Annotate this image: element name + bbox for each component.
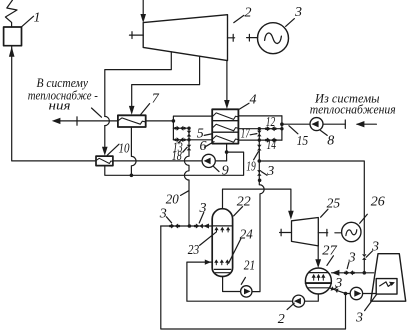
wire: suction to circ pump and to spray box xyxy=(346,293,377,295)
turbine 2 right shaft seg B xyxy=(247,37,258,39)
condenser 27 xyxy=(305,268,331,294)
wire: live steam line into turbine xyxy=(142,0,144,18)
valve 3 on feed line left xyxy=(171,224,178,229)
deaerator upper spray arrows xyxy=(214,227,230,232)
svg-text:4: 4 xyxy=(250,93,257,108)
wire: condensate rail with hop over deaerator steam line xyxy=(252,129,264,292)
arrow into turbine inlet xyxy=(140,14,146,23)
heater 6 zigzag bottom xyxy=(212,136,238,143)
label 26 leader xyxy=(360,214,368,223)
svg-text:3: 3 xyxy=(199,201,207,216)
node right rail / valve12 row xyxy=(280,127,283,130)
svg-text:3: 3 xyxy=(294,5,302,20)
pump 9 arrow xyxy=(204,158,211,165)
boundary tick on supply line xyxy=(76,117,78,125)
wire: ladder left rail down xyxy=(172,121,174,140)
node drain tee xyxy=(225,150,229,154)
wire: extraction 2 down from turbine xyxy=(132,56,200,107)
node tee at HX7 outlet xyxy=(172,119,176,123)
shaft tick B xyxy=(248,34,250,41)
heat exchanger HX10 xyxy=(96,156,113,166)
network supply arrow (left) xyxy=(58,120,118,122)
turbine 25 right shaft xyxy=(318,232,327,234)
valve 18 vertical on rail xyxy=(187,145,191,151)
wire: HX7 outlet to ladder tee xyxy=(146,120,174,122)
heater block 4 xyxy=(212,109,238,143)
turbine T2 xyxy=(143,15,227,61)
svg-text:18: 18 xyxy=(172,149,182,164)
wire: row 13 xyxy=(173,127,189,129)
wire: drain line 17 / valve 12 row xyxy=(238,128,282,130)
label 22 leader xyxy=(234,207,243,216)
condenser water level thin xyxy=(308,287,330,289)
pump 21 xyxy=(241,286,252,297)
wire: valve 14 row xyxy=(238,139,282,141)
heater 4 zigzag top xyxy=(212,113,238,120)
wire: HX10 drain down and drain header xyxy=(105,152,244,175)
label 13 leader xyxy=(178,140,182,143)
svg-text:1: 1 xyxy=(34,11,41,26)
wire: heater block drain to pump 9 xyxy=(226,144,228,161)
valve 3 on feed line right (check valve) xyxy=(196,224,203,229)
label 10 leader xyxy=(107,144,119,155)
wire: heater top outlet to right rail xyxy=(238,115,282,117)
label 20 leader xyxy=(181,191,189,196)
label 3 leader xyxy=(261,172,267,176)
valve on row 18 xyxy=(177,137,184,142)
flow arrow after valve xyxy=(203,224,209,229)
wire: condensate line condenser to deaerator xyxy=(187,262,318,301)
label 3 leader xyxy=(365,295,377,311)
arrow into condenser circ inlet xyxy=(332,270,340,276)
svg-text:8: 8 xyxy=(327,134,334,149)
turbine 25 right shaft tick xyxy=(326,229,328,236)
HX10 internal zigzag xyxy=(96,158,113,163)
node rail/row13 xyxy=(187,127,190,130)
valve 12 xyxy=(267,126,275,131)
HX7 internal zigzag xyxy=(118,118,146,124)
turbine PT25 xyxy=(292,218,319,246)
turbine 25 left shaft xyxy=(280,232,292,234)
svg-text:25: 25 xyxy=(327,197,341,212)
svg-text:ния: ния xyxy=(49,98,71,112)
pump 2 arrow xyxy=(294,298,301,304)
generator G26 sine xyxy=(346,230,357,236)
wire: ladder left rail up to heater block inlet xyxy=(173,116,212,121)
label 3 leader xyxy=(286,19,295,27)
svg-text:3: 3 xyxy=(266,164,274,179)
svg-text:2: 2 xyxy=(278,312,285,327)
node rail/row18 xyxy=(187,138,190,141)
label 18 leader xyxy=(183,147,187,152)
valve on row 13 xyxy=(177,126,184,131)
node rail row14 xyxy=(258,138,261,141)
svg-text:20: 20 xyxy=(166,193,179,208)
label 7 leader xyxy=(141,104,150,115)
label 23 leader xyxy=(200,232,216,245)
label 3 leader xyxy=(366,251,372,257)
text leader to network line xyxy=(92,108,102,117)
svg-text:14: 14 xyxy=(267,138,277,153)
generator G3 xyxy=(258,23,289,54)
spray box zigzag xyxy=(380,282,394,287)
network return arrow (right) xyxy=(357,123,376,125)
svg-text:23: 23 xyxy=(188,243,200,258)
svg-text:17: 17 xyxy=(241,127,251,142)
turbine 25 left shaft tick xyxy=(280,229,282,236)
svg-text:2: 2 xyxy=(245,6,252,21)
label 3 leader xyxy=(334,287,337,289)
svg-text:7: 7 xyxy=(152,92,160,107)
valve 3 vertical on rail xyxy=(257,170,261,176)
pump 8 arrow xyxy=(311,121,318,128)
valve 3 on circ inlet line xyxy=(346,270,353,275)
label 21 leader xyxy=(241,277,245,284)
svg-text:3: 3 xyxy=(371,240,379,255)
node circ pump suction tee xyxy=(344,292,348,296)
label 15 leader xyxy=(289,126,298,134)
wire: right rail upper xyxy=(281,116,283,140)
cooling tower shell xyxy=(371,254,406,302)
heater block divider 1 xyxy=(212,120,238,122)
label 6 leader xyxy=(205,142,215,148)
arrow into HX7 xyxy=(129,106,135,115)
deaerator water level lines xyxy=(214,268,230,270)
svg-text:9: 9 xyxy=(222,164,229,179)
wire: makeup line from rail to right column xyxy=(259,161,364,254)
wire: makeup column to circ line xyxy=(363,260,365,273)
node rail / makeup water line xyxy=(258,159,262,163)
circulating pump arrow xyxy=(354,290,361,296)
wire: deaerator feed line xyxy=(161,225,212,227)
wire: turbine 25 exhaust to condenser xyxy=(317,246,319,262)
circulating pump xyxy=(350,287,362,299)
label 2 leader xyxy=(234,15,244,22)
turbine 2 right shaft tick xyxy=(232,34,234,41)
svg-text:19: 19 xyxy=(246,160,256,175)
svg-text:27: 27 xyxy=(322,244,338,259)
label 3 leader xyxy=(166,217,171,223)
node rail lower xyxy=(258,179,262,183)
label 1 leader xyxy=(22,16,34,26)
tower spray box xyxy=(376,279,397,295)
wire: extraction 1 down from turbine xyxy=(105,52,172,117)
wire: big makeup loop bottom xyxy=(161,226,346,329)
pump 9 xyxy=(202,154,215,167)
turbine 2 left shaft tick xyxy=(131,32,133,39)
heat exchanger HX7 xyxy=(118,115,146,127)
label 25 leader xyxy=(321,209,328,217)
label 24 leader xyxy=(229,239,241,263)
wire: extraction 1 to HX10 xyxy=(104,126,106,150)
wire: steam to deaerator head and PT25 xyxy=(223,189,291,213)
wire: network return line to pumps xyxy=(282,123,345,125)
label 2 leader xyxy=(287,303,294,309)
svg-text:24: 24 xyxy=(240,228,253,243)
svg-text:10: 10 xyxy=(119,142,130,157)
node makeup joins circ line xyxy=(363,271,367,275)
node line20 joins feed line xyxy=(188,224,192,228)
deaerator vessel 22 xyxy=(212,209,232,277)
wire: circulating water into condenser xyxy=(332,272,374,274)
turbine 2 right shaft seg A xyxy=(228,37,235,39)
heater block divider 2 xyxy=(212,131,238,133)
svg-text:3: 3 xyxy=(159,207,167,222)
svg-text:15: 15 xyxy=(297,134,309,149)
wire: extraction 3 down to heater block 4 xyxy=(226,61,228,103)
label 5 leader xyxy=(204,134,211,136)
label 8 leader xyxy=(320,130,327,135)
hop of extraction 1 over network line xyxy=(105,116,110,125)
heater 5 zigzag mid xyxy=(212,124,238,131)
node right rail / return line xyxy=(280,122,284,126)
pump 21 arrow xyxy=(244,288,251,294)
wire: row 18 to heater block xyxy=(173,139,212,141)
condenser water level thick xyxy=(306,282,331,284)
arrow into deaerator lower sprays xyxy=(205,260,211,265)
condensate pump 2 xyxy=(293,295,305,307)
wire: condensate return into deaerator xyxy=(187,261,212,263)
pump 8 xyxy=(310,118,323,131)
generator G26 xyxy=(342,222,361,241)
svg-text:теплоснабжения: теплоснабжения xyxy=(310,102,396,116)
label 4 leader xyxy=(239,103,249,109)
wire: HX7 drain with hop over feed line xyxy=(131,127,136,175)
label 9 leader xyxy=(214,166,220,171)
valve 3 on makeup column xyxy=(362,254,366,260)
label 3 leader xyxy=(199,212,204,223)
valve 14 xyxy=(267,138,275,143)
label 3 leader xyxy=(347,262,349,269)
boiler box 1 xyxy=(4,27,22,46)
condenser steam arrows xyxy=(312,274,326,280)
label 27 leader xyxy=(327,256,334,266)
wire: feed riser to boiler (left vertical) xyxy=(12,46,227,161)
svg-text:3: 3 xyxy=(355,311,363,326)
valve 13 vertical on rail xyxy=(187,131,191,137)
arrow into turbine 25 xyxy=(288,211,294,220)
valve 17 vertical on rail xyxy=(257,131,261,137)
boiler B1 relief zigzag xyxy=(5,0,17,27)
junction drains xyxy=(130,174,134,178)
svg-text:22: 22 xyxy=(237,195,251,210)
node rail top xyxy=(258,127,261,130)
wire: condenser outlet to circ pump xyxy=(330,288,346,294)
wire: deaerator bottom outlet to pump 21 xyxy=(223,276,241,291)
arrow into heater block 4 xyxy=(224,100,230,109)
svg-text:12: 12 xyxy=(266,115,276,130)
arrow into HX10 xyxy=(102,147,108,156)
boundary tick on return line xyxy=(344,120,346,128)
valve 19 vertical on rail xyxy=(257,145,261,151)
valve 3 on condenser outlet xyxy=(331,286,339,293)
label 19 leader xyxy=(254,152,259,160)
svg-text:21: 21 xyxy=(244,259,256,274)
deaerator lower spray arrows xyxy=(214,259,229,264)
arrow into condenser xyxy=(315,259,321,268)
turbine 2 left shaft xyxy=(130,34,144,36)
generator G3 sine xyxy=(265,33,282,43)
label 17 leader xyxy=(250,134,257,135)
arrow into boiler 1 xyxy=(9,47,15,57)
deaerator tray line xyxy=(212,225,232,227)
condenser tube line xyxy=(309,272,328,274)
wire: line 20 rail with hop over pump line xyxy=(184,128,189,226)
spray zigzag arrow xyxy=(389,282,395,286)
svg-text:26: 26 xyxy=(371,195,385,210)
